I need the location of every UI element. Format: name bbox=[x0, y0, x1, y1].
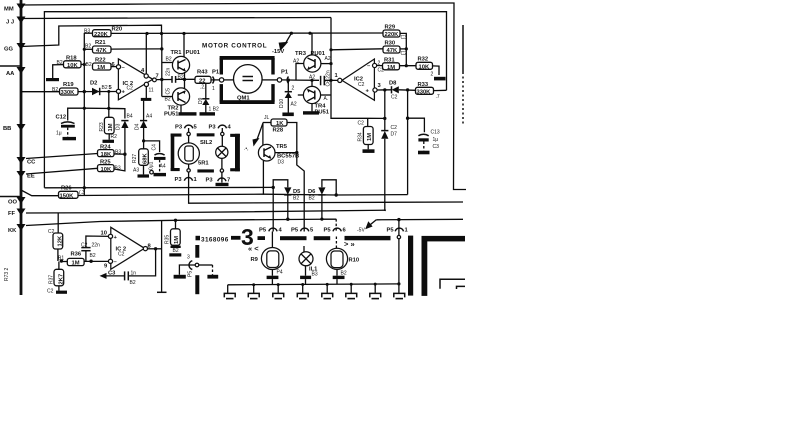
svg-text:P3: P3 bbox=[206, 178, 214, 184]
op-amp IC2b (mirrored) bbox=[342, 59, 374, 100]
svg-text:.•,: .•, bbox=[244, 146, 249, 152]
op-amp IC2c triangle bbox=[111, 227, 145, 269]
wire ground drop x161.6 bbox=[161, 221, 163, 292]
pin 2 bbox=[373, 63, 377, 67]
wire vertical x=162 (GG to TR bases) bbox=[161, 34, 163, 97]
svg-text:TR1: TR1 bbox=[171, 50, 183, 56]
svg-text:D5: D5 bbox=[293, 189, 301, 195]
connector row: box 8 bbox=[394, 293, 405, 297]
op-amp IC2a triangle bbox=[118, 59, 152, 100]
svg-text:P3: P3 bbox=[175, 177, 183, 183]
wire TR5 collector line bbox=[275, 152, 297, 154]
svg-text:1M: 1M bbox=[174, 236, 180, 244]
svg-text:C5: C5 bbox=[166, 88, 172, 95]
thick bus bars bottom right bbox=[408, 236, 413, 296]
svg-text:C13: C13 bbox=[431, 130, 440, 136]
svg-text:B2: B2 bbox=[130, 280, 136, 286]
svg-text:.2.: .2. bbox=[200, 85, 206, 91]
wire P5-5 drop from line P3-1 bbox=[297, 153, 304, 232]
svg-text:C2: C2 bbox=[47, 289, 54, 295]
wire pin8 output bbox=[148, 248, 162, 250]
node dot TR3 collector bbox=[308, 32, 311, 35]
svg-text:KK: KK bbox=[8, 228, 17, 234]
svg-text:B2: B2 bbox=[102, 85, 108, 91]
node dot R30 branch bbox=[329, 48, 332, 51]
connector row: box 3 bbox=[277, 283, 280, 286]
svg-text:5R1: 5R1 bbox=[198, 161, 209, 167]
svg-text:22n: 22n bbox=[92, 243, 101, 249]
wire P3-1 drop bbox=[189, 172, 463, 203]
resistor R25 + EE wire bbox=[26, 168, 98, 174]
node EE bbox=[17, 171, 26, 178]
wire node line -15V rail y=33.7 bbox=[111, 32, 383, 34]
wire bottom feed line bbox=[228, 283, 399, 286]
wire top link y=108 bbox=[84, 107, 125, 109]
capacitor C13 bbox=[408, 118, 425, 132]
svg-text:R10: R10 bbox=[349, 258, 360, 264]
svg-text:J J: J J bbox=[6, 20, 14, 26]
svg-text:P5: P5 bbox=[188, 271, 194, 277]
svg-text:C2: C2 bbox=[391, 125, 398, 131]
svg-text:.7: .7 bbox=[436, 94, 440, 100]
node OO bbox=[17, 197, 26, 204]
light arrows to TR5 bbox=[257, 124, 263, 142]
node small circle bbox=[150, 170, 154, 174]
svg-text:330K: 330K bbox=[417, 90, 432, 96]
pin 9 bbox=[108, 259, 112, 263]
svg-text:1K: 1K bbox=[276, 121, 284, 127]
wire TR1 collector up bbox=[183, 34, 185, 58]
pin 4 bbox=[144, 74, 148, 78]
svg-text:C6 22n: C6 22n bbox=[326, 70, 332, 86]
svg-text:B2: B2 bbox=[309, 196, 315, 202]
svg-text:D2: D2 bbox=[90, 81, 97, 87]
node BB bbox=[17, 124, 26, 131]
svg-text:BB: BB bbox=[3, 126, 11, 132]
svg-text:-15V: -15V bbox=[272, 49, 284, 55]
wire TR3 stub right bbox=[321, 63, 331, 65]
svg-text:D10: D10 bbox=[279, 99, 285, 108]
svg-text:47K: 47K bbox=[387, 48, 398, 54]
svg-text:R19: R19 bbox=[63, 82, 74, 88]
wire TR2 base bbox=[162, 96, 173, 98]
svg-text:P1: P1 bbox=[212, 70, 220, 76]
wire R28 left down to TR5 base bbox=[262, 123, 264, 149]
svg-text:OO: OO bbox=[8, 200, 18, 206]
svg-text:C2: C2 bbox=[378, 68, 385, 74]
svg-text:D8: D8 bbox=[389, 81, 397, 87]
svg-text:PU51: PU51 bbox=[164, 112, 179, 118]
lamp frame brackets bbox=[171, 134, 175, 172]
svg-text:1: 1 bbox=[212, 86, 215, 92]
svg-text:1μ: 1μ bbox=[56, 131, 62, 137]
svg-text:« <: « < bbox=[248, 244, 259, 253]
svg-text:B2: B2 bbox=[85, 44, 91, 50]
resistor R34 bbox=[367, 118, 369, 126]
svg-text:10: 10 bbox=[101, 231, 107, 237]
svg-text:2: 2 bbox=[431, 72, 434, 78]
svg-text:A4: A4 bbox=[146, 114, 152, 120]
svg-text:10K: 10K bbox=[419, 65, 430, 71]
svg-text:2K7: 2K7 bbox=[59, 274, 65, 285]
transistor TR2 bbox=[172, 88, 189, 105]
svg-text:1M: 1M bbox=[97, 65, 105, 71]
wire P5-1 down to bottom row bbox=[398, 239, 400, 293]
svg-text:B4: B4 bbox=[127, 114, 133, 120]
svg-text:D3: D3 bbox=[116, 123, 122, 130]
svg-text:C2: C2 bbox=[127, 86, 134, 92]
svg-text:D3: D3 bbox=[278, 160, 285, 166]
connector row: box 1 bbox=[227, 285, 229, 293]
wire TR3 base bbox=[296, 64, 304, 81]
svg-text:C2: C2 bbox=[358, 82, 365, 88]
svg-text:1M: 1M bbox=[72, 261, 80, 267]
svg-text:C4: C4 bbox=[152, 144, 158, 151]
power -15V arrow bbox=[285, 33, 292, 45]
svg-text:B2: B2 bbox=[166, 57, 172, 63]
svg-text:P5: P5 bbox=[324, 228, 332, 234]
wire TR4 top to line bbox=[311, 80, 313, 86]
connector row: box 6 bbox=[350, 283, 353, 286]
svg-text:P5: P5 bbox=[387, 228, 395, 234]
wire R21 right to x162 bbox=[111, 48, 162, 50]
svg-text:GG: GG bbox=[4, 47, 14, 53]
svg-text:R28: R28 bbox=[273, 128, 284, 134]
svg-text:R9: R9 bbox=[251, 257, 259, 263]
svg-text:1M: 1M bbox=[108, 123, 114, 131]
svg-text:R27: R27 bbox=[132, 154, 138, 163]
wire: main left bus bbox=[20, 0, 23, 295]
wire TR3 collector up bbox=[311, 33, 313, 55]
wire FF line3 bbox=[26, 210, 385, 213]
pin 6 bbox=[116, 65, 120, 69]
svg-text:22n: 22n bbox=[166, 67, 172, 76]
wire stub OO from left edge bbox=[0, 196, 21, 198]
wire line A (MM) top bbox=[21, 3, 466, 190]
wire R33 right up to line B bbox=[434, 89, 447, 91]
svg-text:R43: R43 bbox=[197, 70, 208, 76]
svg-text:P5: P5 bbox=[259, 228, 267, 234]
node dot TR3 stub bbox=[329, 62, 332, 65]
svg-text:10K: 10K bbox=[67, 63, 78, 69]
wire x=407.6 column down bbox=[407, 90, 409, 195]
lamp IL1 bbox=[299, 252, 313, 266]
wire line C (JJ) bbox=[21, 18, 331, 19]
svg-text:P5: P5 bbox=[291, 228, 299, 234]
svg-text:A.: A. bbox=[324, 96, 329, 102]
node dot main line x331 bbox=[329, 79, 332, 82]
wire pin4 drop bbox=[145, 34, 147, 74]
pin 11 bbox=[144, 82, 148, 86]
svg-text:A2: A2 bbox=[293, 59, 299, 65]
svg-text:P3: P3 bbox=[175, 125, 183, 131]
svg-text:P4: P4 bbox=[277, 270, 283, 276]
svg-text:C2: C2 bbox=[391, 95, 398, 101]
wire KK line4 bbox=[26, 219, 336, 225]
node MM bbox=[17, 4, 26, 11]
svg-text:220K: 220K bbox=[385, 32, 400, 38]
svg-text:B2: B2 bbox=[173, 248, 179, 254]
diode D5 bbox=[273, 180, 288, 188]
svg-text:R2: R2 bbox=[111, 134, 118, 140]
wire pin3 col x=385 down bbox=[384, 90, 386, 131]
svg-text:B2: B2 bbox=[90, 253, 96, 259]
wire D2 branch down bbox=[109, 92, 125, 119]
node FF bbox=[17, 209, 26, 216]
svg-text:B2: B2 bbox=[341, 271, 347, 277]
svg-text:C2: C2 bbox=[118, 252, 125, 258]
svg-text:0μ1: 0μ1 bbox=[149, 161, 155, 170]
svg-text:P1: P1 bbox=[281, 70, 289, 76]
wire R19 right / D2 line bbox=[78, 91, 117, 93]
wire GG branch bbox=[21, 25, 162, 46]
wire R18 left + rail bar bbox=[53, 65, 64, 79]
node dot GG joint bbox=[160, 32, 163, 35]
wire R30 left to x331 bbox=[331, 49, 383, 50]
thin corner box 2 bbox=[457, 286, 466, 289]
svg-text:330K: 330K bbox=[61, 90, 76, 96]
pin 1 output bbox=[338, 78, 342, 82]
svg-text:C3: C3 bbox=[433, 144, 440, 150]
svg-text:QM1: QM1 bbox=[237, 96, 250, 102]
capacitor C4 bbox=[144, 141, 160, 152]
svg-text:150K: 150K bbox=[60, 194, 75, 200]
wire TR3 collector vertical x=331 bbox=[331, 18, 385, 119]
capacitor C6 bbox=[320, 76, 322, 86]
wire R19 left to bus bbox=[21, 91, 60, 93]
wire TR4 stub right bbox=[321, 94, 331, 96]
svg-text:1M: 1M bbox=[367, 133, 373, 141]
svg-text:R73 2: R73 2 bbox=[4, 267, 10, 281]
svg-text:68K: 68K bbox=[143, 153, 149, 164]
wire TR2 collector up bbox=[184, 79, 186, 88]
svg-text:A2: A2 bbox=[309, 75, 315, 81]
svg-text:D6: D6 bbox=[308, 189, 316, 195]
resistor R24 + CC wire bbox=[26, 154, 98, 159]
pin 10 bbox=[108, 234, 112, 238]
svg-text:47K: 47K bbox=[96, 48, 107, 54]
svg-text:R34: R34 bbox=[358, 132, 364, 141]
divider dashed vertical right x463 bbox=[462, 25, 464, 72]
wire 5R1 bottom bbox=[188, 164, 190, 169]
thin corner box 1 bbox=[440, 279, 465, 289]
label 3168096 bbox=[196, 236, 201, 241]
connector row: box 5 bbox=[326, 283, 329, 286]
diode D7 bbox=[381, 130, 388, 132]
svg-text:18K: 18K bbox=[101, 152, 112, 158]
node GG bbox=[17, 43, 26, 50]
svg-text:B2: B2 bbox=[86, 62, 92, 68]
svg-text:R32: R32 bbox=[418, 57, 429, 63]
wire TR1 base bbox=[162, 62, 173, 64]
svg-text:220K: 220K bbox=[94, 32, 109, 38]
wire TR4 emitter + ground bbox=[311, 104, 313, 112]
wire output line y=79.5 bbox=[156, 79, 172, 81]
svg-text:C3: C3 bbox=[108, 271, 116, 277]
wire TR2 emitter down + ground bar bbox=[180, 105, 182, 112]
connector row: box 7 bbox=[374, 283, 377, 286]
svg-text:1M: 1M bbox=[387, 65, 395, 71]
svg-text:3: 3 bbox=[187, 255, 190, 261]
resistor R26 bbox=[21, 190, 59, 196]
svg-text:MOTOR CONTROL: MOTOR CONTROL bbox=[202, 43, 267, 50]
wire R29/R30 right column bbox=[400, 33, 406, 65]
svg-text:7: 7 bbox=[227, 178, 230, 184]
node AA bbox=[17, 67, 26, 74]
svg-text:TR5: TR5 bbox=[276, 144, 288, 150]
wire R28 right down bbox=[287, 123, 297, 153]
node dot pin4 drop bbox=[145, 32, 148, 35]
pin 3 bbox=[373, 88, 377, 92]
divider dashes vertical x197 bbox=[195, 245, 199, 258]
node dot -15V bbox=[290, 32, 293, 35]
svg-text:B3: B3 bbox=[312, 272, 318, 278]
wire P5-4 drop from line1 bbox=[272, 187, 274, 231]
lamp SIL2 bbox=[216, 146, 228, 158]
wire R32 right to rail bar bbox=[433, 66, 440, 75]
pin 7 output bbox=[153, 78, 157, 82]
svg-text:TR3: TR3 bbox=[295, 51, 307, 57]
photoresistor 5R1 bbox=[178, 143, 199, 164]
svg-text:C2: C2 bbox=[358, 121, 365, 127]
svg-text:P3: P3 bbox=[209, 125, 217, 131]
svg-text:7: 7 bbox=[156, 74, 159, 80]
connector row: box 4 bbox=[301, 283, 304, 286]
divider dashes horizontal bbox=[231, 236, 241, 240]
node KK bbox=[17, 224, 26, 231]
connector row: box 2 bbox=[252, 283, 255, 286]
svg-text:R21: R21 bbox=[95, 40, 106, 46]
svg-text:JL: JL bbox=[264, 115, 270, 121]
svg-text:R36: R36 bbox=[71, 252, 82, 258]
svg-text:2: 2 bbox=[292, 86, 295, 92]
svg-text:1n: 1n bbox=[131, 271, 137, 277]
svg-text:MM: MM bbox=[4, 7, 14, 13]
wire SIL2 bottom bbox=[221, 158, 223, 168]
svg-text:> »: > » bbox=[344, 240, 355, 249]
motor QM1 bbox=[234, 65, 263, 94]
svg-text:B2: B2 bbox=[293, 196, 299, 202]
wire line1 y=187.5 bbox=[44, 186, 273, 188]
svg-text:AA: AA bbox=[6, 71, 15, 77]
wire line B frame bbox=[44, 12, 446, 188]
wire feedback column x=84.3 bbox=[83, 33, 85, 196]
svg-text:A2: A2 bbox=[291, 102, 297, 108]
svg-text:FF: FF bbox=[8, 211, 16, 217]
svg-text:1 B2: 1 B2 bbox=[209, 107, 220, 113]
wire stub AA from left edge bbox=[0, 65, 21, 67]
svg-text:11: 11 bbox=[149, 88, 154, 94]
svg-text:PU01: PU01 bbox=[186, 50, 201, 56]
svg-text:R35: R35 bbox=[165, 235, 171, 244]
svg-text:B2: B2 bbox=[165, 97, 171, 103]
svg-text:1μ: 1μ bbox=[433, 137, 439, 143]
svg-text:A2: A2 bbox=[325, 56, 331, 62]
wire stubs from lamp bars bbox=[271, 279, 273, 285]
capacitor C5 bbox=[171, 76, 173, 83]
resistor R35 bbox=[174, 219, 177, 222]
pin 8 bbox=[143, 247, 147, 251]
svg-text:-5V: -5V bbox=[357, 228, 365, 234]
wire pin11 to rail bar bbox=[145, 87, 147, 99]
svg-text:12K: 12K bbox=[58, 235, 64, 246]
motor frame thick brackets bbox=[220, 56, 275, 60]
svg-text:10K: 10K bbox=[101, 167, 112, 173]
svg-text:R26: R26 bbox=[61, 186, 72, 192]
svg-text:SIL2: SIL2 bbox=[200, 140, 212, 146]
svg-text:D7: D7 bbox=[391, 132, 398, 138]
node dot TR1 collector bbox=[182, 32, 185, 35]
wire line2 R26 to corner x407 bbox=[78, 194, 408, 195]
transistor TR4 bbox=[303, 86, 320, 103]
capacitor C3 feedback bbox=[128, 249, 155, 276]
svg-text:A4: A4 bbox=[160, 164, 166, 170]
svg-text:3168096: 3168096 bbox=[201, 237, 229, 244]
wire TR1 emitter to line bbox=[184, 72, 186, 79]
wire TR5 emitter down bbox=[262, 161, 264, 195]
lamp R10 bbox=[326, 248, 347, 269]
wire R22 to pin6 bbox=[111, 66, 117, 68]
power -5V arrow to P5-1 line bbox=[371, 220, 377, 225]
pin 5 bbox=[116, 89, 120, 93]
wire main line to TR3 col bbox=[296, 79, 319, 81]
node CC bbox=[17, 157, 26, 164]
node JJ bbox=[17, 17, 26, 24]
wire pin3 line / D8 bbox=[377, 89, 391, 91]
svg-text:D4: D4 bbox=[135, 123, 141, 130]
svg-text:CC: CC bbox=[27, 160, 36, 166]
svg-text:C12: C12 bbox=[56, 115, 67, 121]
svg-text:A3: A3 bbox=[133, 168, 139, 174]
wire D6 to P5-6 dashed bbox=[335, 219, 337, 231]
svg-text:R20: R20 bbox=[112, 27, 123, 33]
